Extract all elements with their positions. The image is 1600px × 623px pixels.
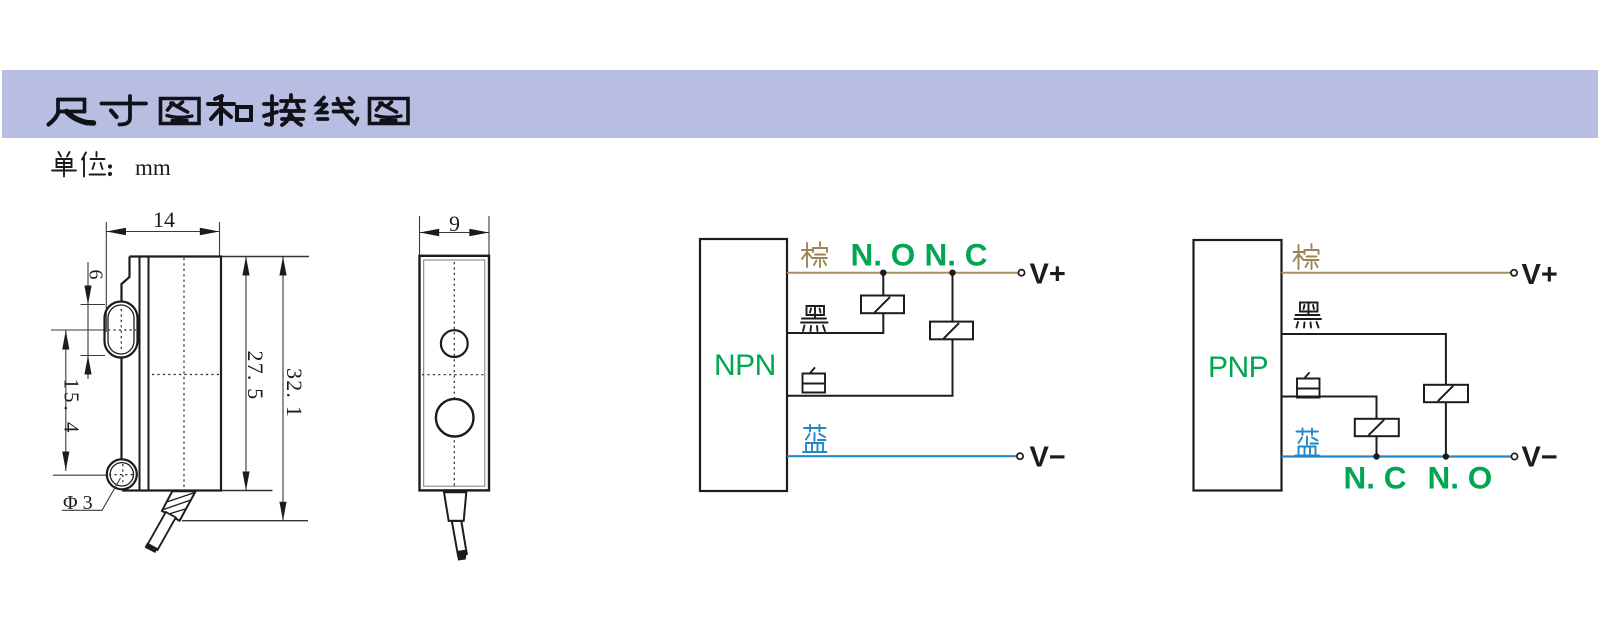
svg-text:Φ 3: Φ 3: [63, 492, 93, 514]
PNP relay N.C: [1355, 419, 1399, 436]
side oval crosshair: [108, 309, 136, 351]
side circle crosshair: [109, 464, 135, 486]
front cable sleeve: [444, 492, 466, 521]
svg-text:27. 5: 27. 5: [243, 351, 268, 401]
dim 9 line: [420, 232, 490, 234]
side inner lines: [140, 257, 149, 491]
NPN relay 2 (N.C load): [930, 322, 973, 340]
svg-text:mm: mm: [135, 155, 171, 180]
dim 9 ext lines: [420, 216, 490, 256]
title 寸: [102, 96, 147, 125]
dim 14 arrows: [106, 228, 219, 235]
svg-text:V−: V−: [1522, 442, 1558, 474]
title 尺: [49, 100, 94, 125]
PNP label: [1208, 351, 1268, 384]
svg-text:9: 9: [449, 211, 460, 236]
PNP junction dot 2: [1443, 453, 1449, 459]
side top extension: [221, 256, 309, 258]
NPN sensor box: [700, 239, 787, 491]
dim 27.5 line: [245, 257, 247, 491]
dim 32.1 arrows: [279, 257, 286, 521]
NPN V+ terminal: [1018, 270, 1024, 276]
NPN black wire: [787, 313, 883, 333]
unit label 单: [52, 152, 76, 177]
side oval slot: [105, 302, 138, 358]
PNP wire relayNO to blue: [1445, 402, 1447, 456]
header bar: [2, 70, 1598, 138]
NPN label 棕: [802, 242, 827, 267]
dim 15.4 line: [65, 331, 67, 472]
dim 15.4 text: [60, 379, 84, 436]
PNP V- text: [1522, 442, 1558, 474]
dim 14 line: [106, 231, 219, 233]
PNP label 白: [1297, 373, 1320, 398]
unit colon: [108, 164, 112, 176]
leader line phi3: [62, 478, 121, 510]
svg-text:N. C: N. C: [925, 237, 988, 273]
title 图: [161, 99, 200, 124]
dim 14 text: [153, 207, 175, 232]
PNP wire relayNC to blue: [1376, 436, 1378, 456]
dim 6 ticks: [81, 305, 106, 356]
PNP blue wire: [1282, 455, 1512, 457]
PNP V- terminal: [1511, 453, 1517, 459]
svg-text:V+: V+: [1522, 259, 1558, 291]
PNP N.O label: [1428, 460, 1493, 496]
side center dashed vertical: [183, 258, 185, 489]
side hole circle: [107, 459, 137, 489]
PNP white wire: [1282, 397, 1377, 419]
svg-text:15. 4: 15. 4: [60, 379, 84, 436]
svg-text:14: 14: [153, 207, 175, 232]
NPN label 白: [803, 368, 826, 393]
PNP sensor box: [1194, 240, 1282, 491]
NPN N.O label: [851, 237, 916, 273]
title 图(2): [370, 99, 409, 124]
svg-text:PNP: PNP: [1208, 351, 1268, 384]
front cable: [452, 521, 467, 561]
dim 9 arrows: [420, 229, 490, 236]
NPN junction dot 2: [949, 270, 955, 276]
svg-text:N. O: N. O: [1428, 460, 1493, 496]
phi3 text: [63, 492, 93, 514]
svg-text:32. 1: 32. 1: [282, 368, 307, 418]
side bottom extension 27.5: [221, 490, 273, 492]
dim 9 text: [449, 211, 460, 236]
dim 32.1 text: [282, 368, 307, 418]
NPN white wire: [787, 339, 953, 396]
dim 15.4 arrows: [62, 331, 69, 471]
NPN V- terminal: [1017, 453, 1023, 459]
NPN junction dot 1: [880, 270, 886, 276]
PNP label 黑: [1295, 303, 1322, 328]
NPN relay 1 (N.O load): [861, 296, 904, 314]
PNP relay N.O: [1424, 385, 1468, 402]
dim 14 extension lines: [106, 222, 219, 332]
PNP V+ terminal: [1511, 270, 1517, 276]
NPN wire dot2 to relay2: [952, 273, 954, 322]
svg-text:6: 6: [85, 270, 107, 280]
dim 27.5 text: [243, 351, 268, 401]
front large circle: [436, 399, 474, 437]
dim 6 line: [87, 262, 89, 379]
PNP N.C label: [1344, 460, 1407, 496]
front body rect: [420, 256, 490, 491]
PNP junction dot 1: [1373, 453, 1379, 459]
side lower extension 32.1: [182, 520, 308, 522]
NPN V- text: [1030, 442, 1066, 474]
unit mm: [135, 155, 171, 180]
title 和: [208, 96, 251, 124]
NPN N.C label: [925, 237, 988, 273]
NPN label 黑: [801, 306, 828, 331]
svg-text:N. C: N. C: [1344, 460, 1407, 496]
title 线: [318, 98, 358, 124]
svg-text:V−: V−: [1030, 442, 1066, 474]
dim 32.1 line: [282, 257, 284, 521]
front small circle: [441, 330, 468, 357]
NPN V+ text: [1030, 259, 1066, 291]
dim 27.5 arrows: [242, 257, 249, 491]
dim 6 arrows: [84, 286, 91, 375]
svg-text:N. O: N. O: [851, 237, 916, 273]
PNP label 棕: [1294, 244, 1319, 269]
dim 6 text: [85, 270, 107, 280]
PNP black wire: [1282, 334, 1446, 385]
side cable wire: [145, 512, 176, 553]
NPN blue wire: [787, 455, 1017, 457]
NPN label 蓝: [803, 425, 827, 452]
NPN label: [714, 349, 776, 382]
svg-text:NPN: NPN: [714, 349, 776, 382]
PNP brown wire: [1282, 272, 1511, 274]
NPN wire dot1 to relay1: [882, 273, 884, 296]
NPN brown wire: [787, 272, 1018, 274]
title 接: [264, 95, 304, 125]
side cable sleeve: [162, 491, 196, 521]
dim 15.4 ext lines: [51, 330, 107, 475]
side body outline: [122, 257, 222, 491]
svg-text:V+: V+: [1030, 259, 1066, 291]
PNP label 蓝: [1296, 429, 1320, 456]
front dashed centerlines: [422, 262, 487, 486]
unit label 位: [82, 152, 105, 177]
PNP V+ text: [1522, 259, 1558, 291]
side center dashed horizontal: [152, 374, 219, 376]
